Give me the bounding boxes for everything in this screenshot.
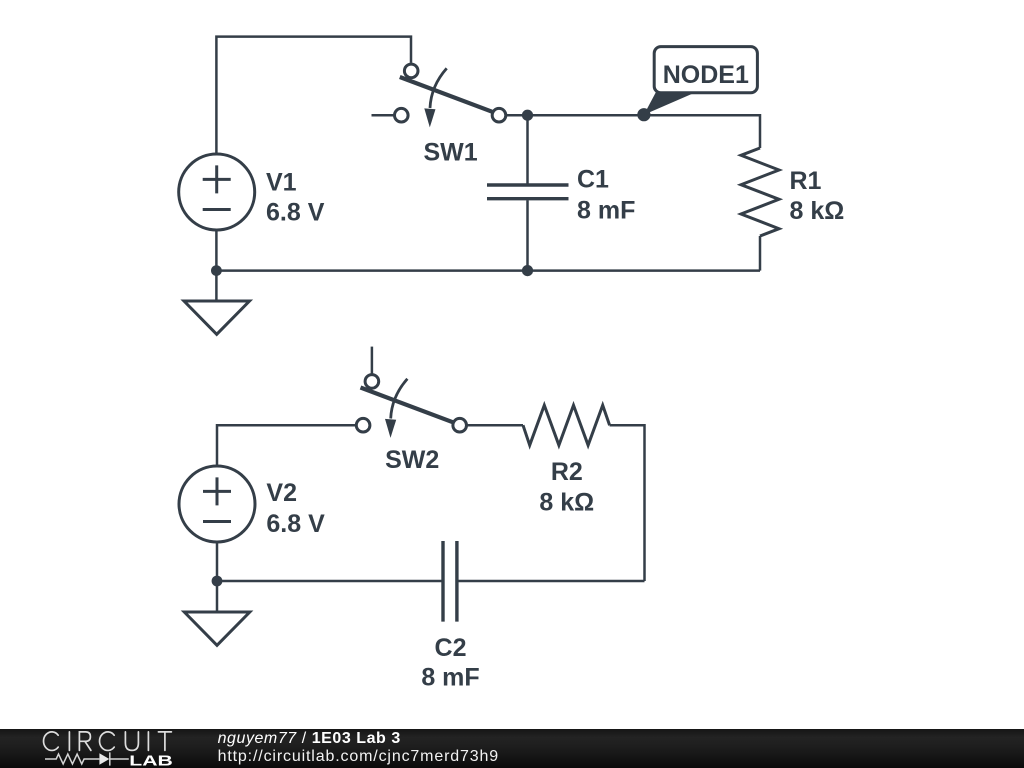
svg-text:8 kΩ: 8 kΩ [539,489,594,517]
svg-text:http://circuitlab.com/cjnc7mer: http://circuitlab.com/cjnc7merd73h9 [218,748,499,765]
svg-text:6.8 V: 6.8 V [266,198,325,226]
svg-text:8 mF: 8 mF [577,197,635,225]
svg-text:SW1: SW1 [424,139,478,167]
svg-text:NODE1: NODE1 [663,61,749,89]
svg-text:8 kΩ: 8 kΩ [790,197,845,225]
svg-text:C1: C1 [577,166,609,194]
svg-text:SW2: SW2 [385,446,439,474]
svg-text:V1: V1 [266,168,297,196]
svg-text:R2: R2 [551,458,583,486]
svg-text:LAB: LAB [129,752,173,768]
svg-text:6.8 V: 6.8 V [266,510,325,538]
svg-text:C2: C2 [435,634,467,662]
svg-text:8 mF: 8 mF [421,663,479,691]
svg-text:R1: R1 [790,167,822,195]
svg-text:V2: V2 [266,479,297,507]
svg-text:nguyem77 / 1E03 Lab 3: nguyem77 / 1E03 Lab 3 [218,730,401,747]
